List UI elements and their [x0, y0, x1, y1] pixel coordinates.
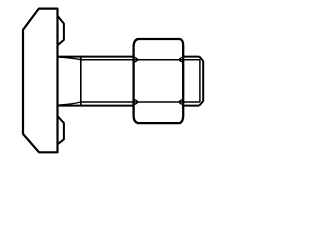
- hex nut outline: [134, 39, 184, 123]
- T-head bolt with hex nut, technical line drawing: [0, 0, 225, 160]
- thread minor diameter top line: [81, 59, 200, 61]
- thread minor diameter bottom line: [81, 101, 200, 103]
- head bottom bump: [58, 116, 64, 144]
- thread run-out arc bottom: [60, 102, 81, 105]
- bolt T-head outline: [23, 9, 58, 153]
- nut bore chamfer arc left top: [134, 57, 138, 62]
- head top bump: [58, 16, 64, 45]
- nut bore chamfer arc right top: [179, 57, 183, 62]
- thread start vertical: [80, 56, 82, 107]
- nut bore chamfer arc right bottom: [179, 100, 183, 105]
- shaft outer top line (head to nut): [58, 56, 134, 58]
- thread run-out arc top: [60, 57, 81, 60]
- shaft outer bottom line (head to nut): [58, 105, 134, 107]
- bolt tip chamfer bottom: [199, 101, 203, 105]
- shaft outer bottom line (nut to tip): [183, 105, 199, 107]
- nut bore chamfer arc left bottom: [134, 100, 138, 105]
- bolt tip chamfer top: [199, 57, 203, 61]
- thread end vertical at chamfer: [199, 60, 201, 102]
- bolt tip end face: [202, 61, 204, 102]
- shaft outer top line (nut to tip): [183, 56, 199, 58]
